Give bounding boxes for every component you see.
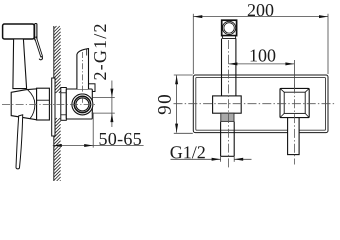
valve main body (behind wall) <box>66 89 92 119</box>
pipe end extension ticks <box>220 156 222 162</box>
label G1/2 with leader <box>171 158 252 161</box>
dimension 200 (plate width) <box>193 14 328 74</box>
label 100 <box>251 49 276 61</box>
centerline (riser pipe vertical) <box>227 40 229 168</box>
dimension 90 (plate height) <box>174 75 193 133</box>
label 90 <box>158 95 171 114</box>
centerline (handle vertical) <box>293 85 295 165</box>
dimension 50-65 (wall depth) <box>53 113 144 148</box>
dimension 2-G1/2 (vertical, ports) <box>92 81 115 128</box>
riser pipe (behind wall, up to holder) <box>77 49 89 89</box>
sprayer grip (hanging body) <box>13 39 27 89</box>
rear mounting flange (behind wall) <box>61 88 67 121</box>
handle lever blade <box>16 115 23 169</box>
riser centerline <box>81 52 83 104</box>
holder circles <box>223 21 236 34</box>
mixer handle cone <box>11 89 36 120</box>
dimension 100 (pipe to handle) <box>228 60 294 92</box>
riser pipe (front view, upper) <box>222 39 236 96</box>
sprayer head <box>3 24 37 41</box>
label 2-G1/2 <box>94 25 106 80</box>
body clamp lines <box>61 92 67 94</box>
handle chamfer lines <box>280 88 309 117</box>
handle knob outer square <box>280 88 309 117</box>
centerline (horizontal axis, front view) <box>174 103 336 105</box>
label G1/2 text <box>171 146 205 158</box>
coupling nut (gray) <box>221 113 234 121</box>
wall plate inner <box>196 77 326 130</box>
holder flange <box>223 36 236 39</box>
label 200 <box>248 4 274 16</box>
centerline (valve axis, side view) <box>2 103 97 105</box>
wall plate outer <box>193 75 328 133</box>
handle stem <box>288 118 300 155</box>
escutcheon plate (edge-on, at wall) <box>52 78 55 136</box>
label 50-65 <box>100 133 141 145</box>
wall (hatched section, lower part) <box>54 118 61 181</box>
sprayer trigger lever <box>35 37 43 57</box>
sprayer holder square <box>222 20 237 35</box>
handle knob inner square <box>284 92 305 113</box>
upper rear port stub <box>86 84 95 92</box>
wall (hatched section, upper part) <box>54 26 61 93</box>
valve outlet circle (port, side view) <box>72 94 93 115</box>
riser pipe (front view, lower) <box>221 122 235 157</box>
cone transition curve <box>28 90 35 119</box>
mixer block (front view) <box>213 96 242 113</box>
handle sleeve (cylinder section) <box>37 88 50 120</box>
